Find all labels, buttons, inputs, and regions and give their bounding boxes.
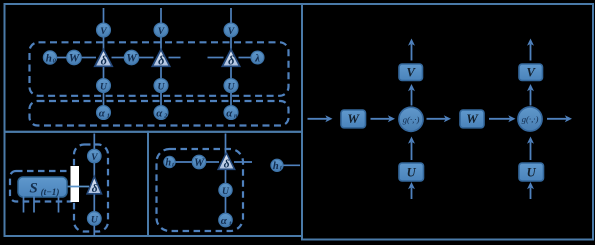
svg-text:α: α xyxy=(99,107,106,119)
wire delta1-U1 xyxy=(103,66,105,79)
dashed box lower (alpha row) xyxy=(30,101,289,126)
wire h0-W1 xyxy=(57,57,68,59)
svg-text:δ: δ xyxy=(228,54,234,68)
node lambda xyxy=(251,51,264,64)
svg-text:U: U xyxy=(407,166,417,180)
svg-text:δ: δ xyxy=(224,159,230,171)
svg-text:U: U xyxy=(100,82,108,93)
node V3 xyxy=(224,23,238,37)
node V1 xyxy=(97,23,111,37)
delta3 triangle xyxy=(222,50,239,68)
node U2 xyxy=(154,79,168,93)
svg-text:U: U xyxy=(228,82,236,93)
panel border bottom-left xyxy=(5,132,149,236)
wire V1-delta1 xyxy=(103,37,105,51)
wire stem above V1 xyxy=(103,8,105,24)
dashed rounded box (unit legend) xyxy=(157,149,244,231)
node U (bl) xyxy=(88,212,102,226)
panel border bottom-middle xyxy=(148,132,302,236)
svg-text:U: U xyxy=(222,186,230,197)
arrow out top 2 xyxy=(527,39,534,61)
arrow g1 to W2 xyxy=(427,115,452,122)
white bar xyxy=(71,166,80,202)
panel border top-left xyxy=(5,4,303,132)
tick 3 below S box xyxy=(58,197,60,213)
wire delta-U (bl) xyxy=(93,193,95,212)
tick 1 below S box xyxy=(23,197,25,213)
arrow U2 to g2 xyxy=(527,137,534,161)
svg-text:δ: δ xyxy=(92,183,98,195)
svg-text:2: 2 xyxy=(163,112,168,119)
arrow in bottom 1 xyxy=(408,182,415,199)
node W (bm) xyxy=(192,155,205,169)
arrow U1 to g1 xyxy=(408,137,415,161)
arrow g1 to V1 xyxy=(408,84,415,106)
wire stem above V (bl) xyxy=(93,134,95,150)
delta2 triangle xyxy=(152,50,169,68)
svg-text:α: α xyxy=(221,215,228,227)
wire stem below U (bl) xyxy=(93,225,95,236)
svg-text:U: U xyxy=(91,215,99,226)
wire stub into delta3 xyxy=(208,57,224,59)
dashed box around V-delta-U column xyxy=(74,145,108,232)
svg-text:t: t xyxy=(229,220,231,227)
svg-text:U: U xyxy=(527,166,537,180)
node h0 xyxy=(43,51,56,65)
node g1 xyxy=(399,107,423,131)
wire stem above V3 xyxy=(230,8,232,24)
delta triangle (bm) xyxy=(218,153,234,171)
arrow in bottom 2 xyxy=(527,182,534,199)
arrow W2 to g2 xyxy=(489,115,516,122)
box W1 xyxy=(341,110,366,128)
node g2 xyxy=(518,107,542,131)
wire delta-U (bm) xyxy=(225,170,227,184)
svg-text:U: U xyxy=(158,82,166,93)
wire ht output to border xyxy=(284,164,301,166)
svg-text:n: n xyxy=(234,112,238,119)
wire stem above V2 xyxy=(160,8,162,24)
svg-text:λ: λ xyxy=(254,53,260,65)
wire W1-delta1 xyxy=(81,57,96,59)
box U2 xyxy=(519,163,544,181)
wire V-delta (bl) xyxy=(93,163,95,179)
node W2 circle xyxy=(124,50,138,64)
svg-text:g(·,·): g(·,·) xyxy=(403,114,420,124)
panel border right xyxy=(302,4,593,240)
svg-text:α: α xyxy=(156,107,163,119)
wire delta1-W2 xyxy=(112,57,125,59)
svg-text:δ: δ xyxy=(101,54,107,68)
box W2 xyxy=(460,110,484,128)
wire delta3-U3 xyxy=(230,66,232,79)
node V2 xyxy=(154,23,168,37)
node U1 xyxy=(97,79,111,93)
svg-text:W: W xyxy=(347,111,360,126)
arrow g2 to V2 xyxy=(527,84,534,106)
svg-text:W: W xyxy=(466,111,479,126)
box V2 xyxy=(519,64,543,81)
wire U2-alpha2 xyxy=(160,92,162,106)
box U1 xyxy=(399,163,424,181)
node alpha2 xyxy=(154,106,168,120)
node U3 xyxy=(224,79,238,93)
svg-text:(t−1): (t−1) xyxy=(41,187,60,197)
delta1 triangle xyxy=(95,50,112,68)
wire stem above delta (bm) xyxy=(225,134,227,156)
S(t-1) box xyxy=(18,177,67,197)
wire V3-delta3 xyxy=(230,37,232,51)
svg-text:S: S xyxy=(29,181,37,197)
node alphan xyxy=(224,106,238,120)
arrow W1 to g1 xyxy=(371,115,396,122)
svg-text:W: W xyxy=(69,51,81,65)
svg-text:1: 1 xyxy=(107,112,110,119)
tick 2 below S box xyxy=(33,197,35,213)
wire U-alphat (bm) xyxy=(225,197,227,214)
wire U1-alpha1 xyxy=(103,92,105,106)
node W1 circle xyxy=(67,50,81,64)
svg-text:α: α xyxy=(226,107,233,119)
svg-text:W: W xyxy=(126,51,138,65)
node ht (bm) xyxy=(164,156,175,168)
arrow g2 out right xyxy=(547,115,572,122)
dashed box upper (delta row) xyxy=(30,42,289,96)
wire V2-delta2 xyxy=(160,37,162,51)
node V (bl) xyxy=(88,149,101,163)
arrow out top 1 xyxy=(408,39,415,61)
node U (bm) xyxy=(219,183,232,197)
wire W2-delta2 xyxy=(139,57,154,59)
wire S-delta horizontal xyxy=(67,186,90,188)
wire delta right stub (bm) xyxy=(234,161,252,163)
wire delta3-lambda xyxy=(239,57,252,59)
svg-text:h: h xyxy=(166,158,172,169)
box V1 xyxy=(399,64,423,81)
delta triangle (bl) xyxy=(87,177,101,196)
svg-text:W: W xyxy=(194,157,205,169)
wire ht-W (bm) xyxy=(175,161,192,163)
wire delta2-U2 xyxy=(160,66,162,79)
dashed box around S(t-1) xyxy=(10,171,76,202)
svg-text:h: h xyxy=(46,53,52,65)
arrow entry left xyxy=(308,115,333,122)
node alphat (bm) xyxy=(219,213,232,227)
svg-text:g(·,·): g(·,·) xyxy=(522,114,539,124)
node alpha1 xyxy=(97,106,111,120)
node ht output (bm right) xyxy=(271,159,283,172)
wire U3-alphan xyxy=(230,92,232,106)
svg-text:δ: δ xyxy=(158,54,164,68)
wire W-delta (bm) xyxy=(206,161,220,163)
wire delta2 right stub xyxy=(169,57,181,59)
svg-text:h: h xyxy=(273,161,279,172)
